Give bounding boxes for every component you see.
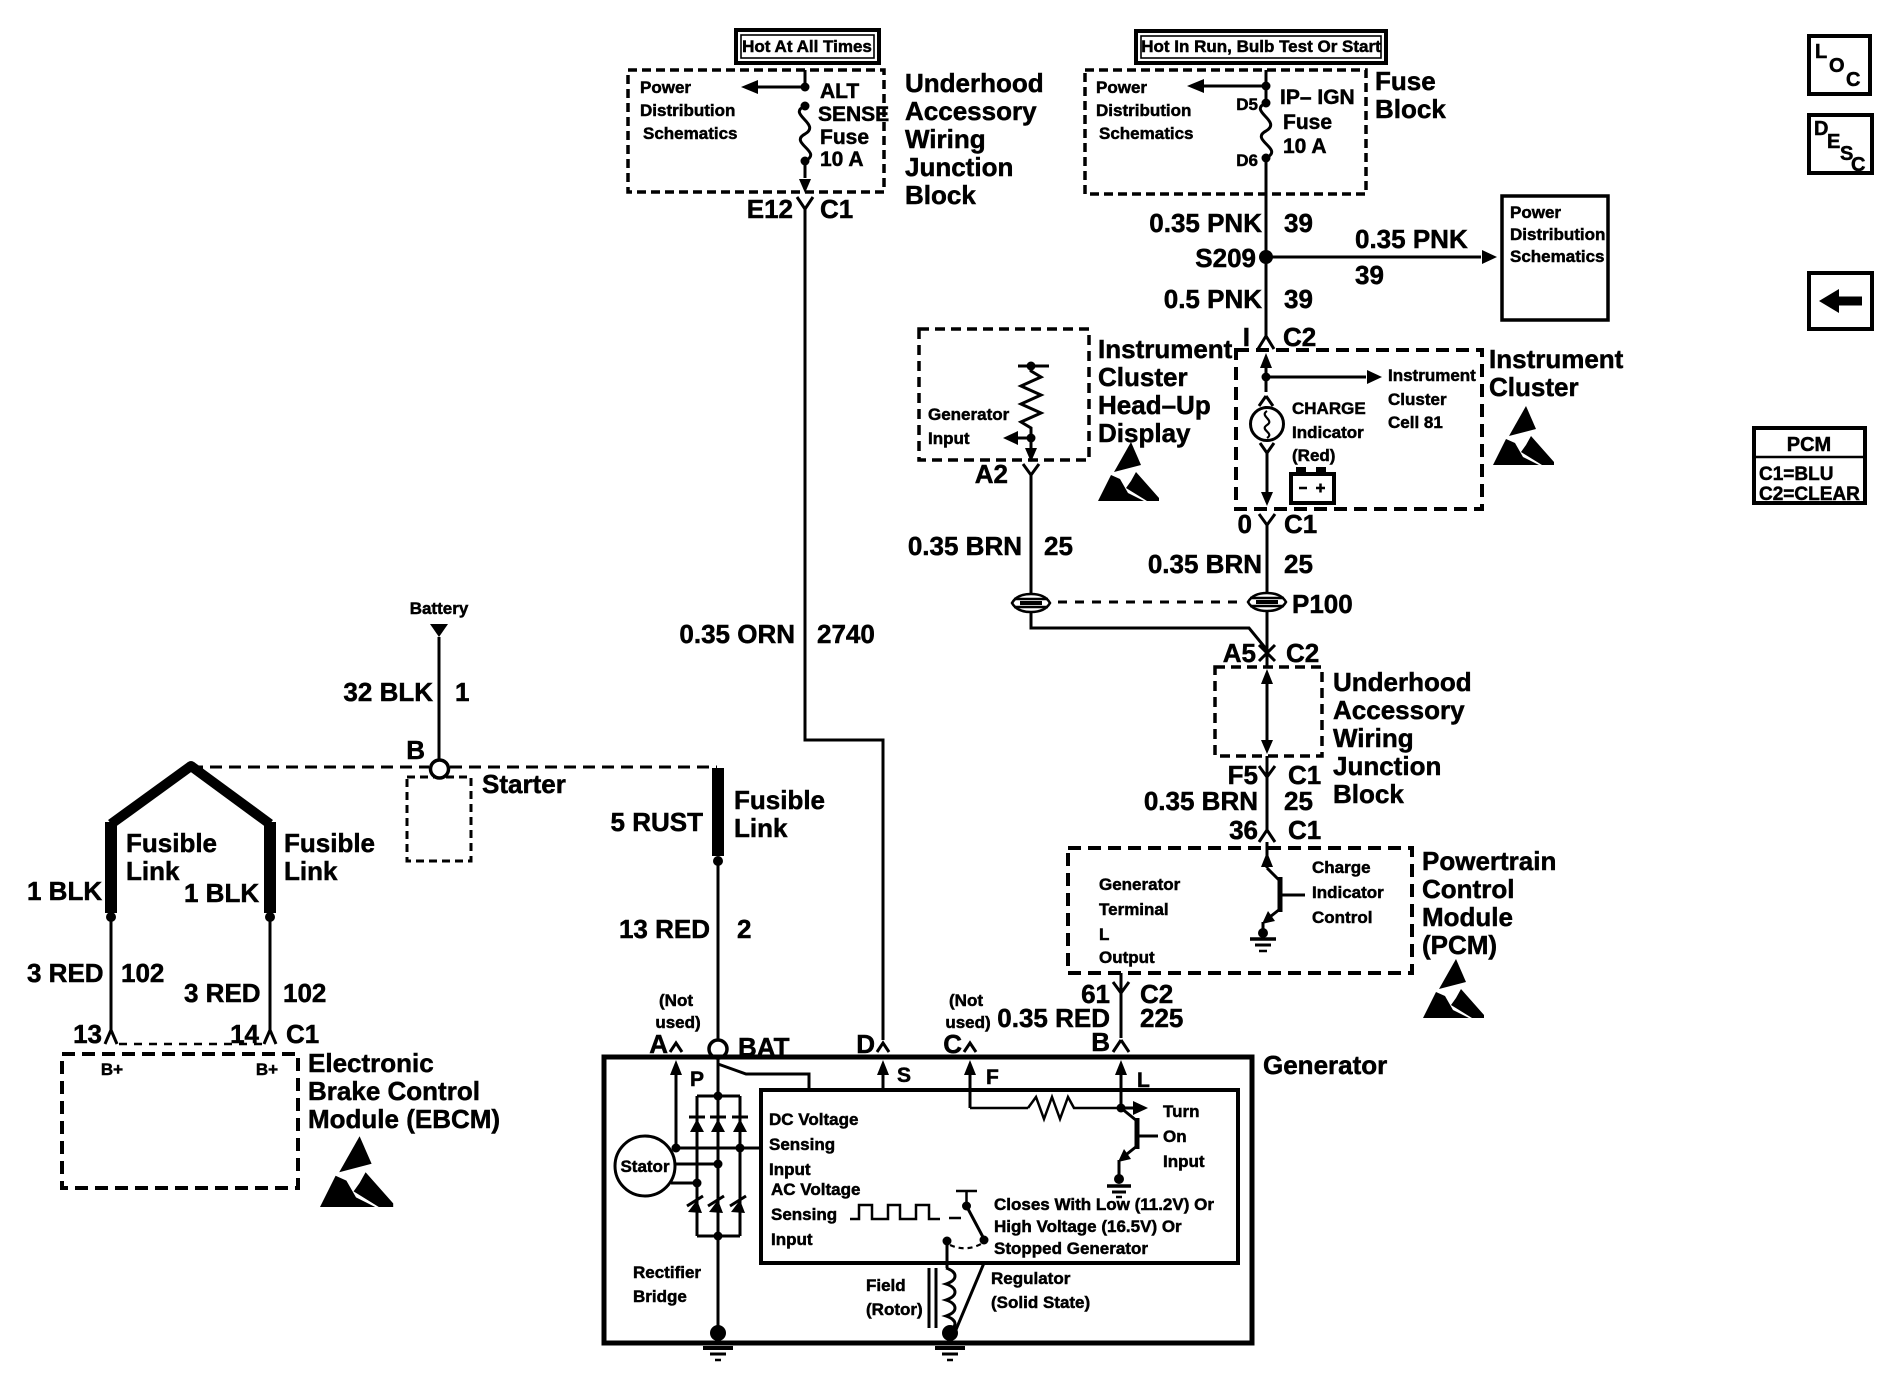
svg-text:36: 36 [1229,815,1258,845]
svg-text:Link: Link [284,856,338,886]
svg-text:Underhood: Underhood [905,68,1044,98]
svg-text:Schematics: Schematics [1510,247,1605,266]
svg-text:C: C [1846,69,1860,91]
svg-text:Distribution: Distribution [1096,101,1191,120]
wire: A2 down to P100 left grommet [1030,488,1033,594]
stator lead 1 (to DC sense) [672,1144,762,1153]
label: Charge Indicator Control [1312,858,1384,927]
label: Instrument Cluster Head-Up Display [1098,334,1233,448]
label: (Not used) at A [655,991,700,1032]
svg-text:Fuse: Fuse [1283,111,1332,134]
dashed actuation link [950,1244,981,1248]
svg-text:B+: B+ [101,1060,123,1079]
battery feed arrowhead [430,624,448,637]
svg-text:S209: S209 [1195,243,1256,273]
svg-text:Instrument: Instrument [1388,366,1476,385]
svg-text:Power: Power [640,78,691,97]
svg-text:39: 39 [1355,260,1384,290]
svg-text:Module: Module [1422,902,1513,932]
label: (Not used) at C [945,991,990,1032]
svg-text:0.35 BRN: 0.35 BRN [908,531,1022,561]
svg-text:I: I [1243,322,1250,352]
connector F5 C1 [1228,760,1322,790]
feed label box: Hot At All Times [736,30,879,63]
svg-text:Brake Control: Brake Control [308,1076,480,1106]
terminal arrow S [877,1060,911,1091]
rectifier bridge top bus [697,1092,740,1101]
wire: cluster input with up arrow [1260,353,1272,376]
wire: PCM output to generator L terminal [1120,973,1123,1038]
svg-text:SENSE: SENSE [818,103,889,126]
svg-text:3 RED: 3 RED [27,958,104,988]
svg-text:CHARGE: CHARGE [1292,399,1366,418]
label: Fusible Link (right) [734,785,825,843]
svg-text:C2=CLEAR: C2=CLEAR [1759,484,1860,505]
DESC reference box [1809,115,1872,176]
wire label: 0.35 BRN 25 (PCM side) [1144,786,1313,816]
svg-text:PCM: PCM [1787,434,1831,456]
svg-text:Display: Display [1098,418,1191,448]
diode top left [689,1117,705,1132]
svg-text:1: 1 [455,677,469,707]
wire: F5 to 36 C1 [1266,756,1269,820]
svg-text:Input: Input [1163,1152,1205,1171]
wire label: 0.35 BRN 25 (A2 side) [908,531,1073,561]
wire: 0.35 ORN 2740 from E12 to generator S [805,222,883,1040]
svg-text:0: 0 [1238,509,1252,539]
connector E12 C1 [747,194,854,224]
connector A5 C2 (X) [1223,638,1320,668]
svg-text:Schematics: Schematics [1099,124,1194,143]
wire: right link to EBCM 14 [269,917,272,1026]
value label: ALT SENSE Fuse 10 A [818,80,889,171]
svg-text:Power: Power [1510,203,1561,222]
svg-text:Underhood: Underhood [1333,667,1472,697]
svg-text:13: 13 [73,1019,102,1049]
svg-text:Powertrain: Powertrain [1422,846,1556,876]
svg-text:(Solid State): (Solid State) [991,1293,1090,1312]
svg-text:Generator: Generator [1263,1050,1387,1080]
wire: fuse output with down arrow [799,161,811,193]
resistor (field control) [970,1097,1148,1119]
label: Field (Rotor) [866,1276,923,1319]
svg-text:E12: E12 [747,194,793,224]
svg-text:Fusible: Fusible [284,828,375,858]
regulator box [761,1090,1238,1263]
svg-text:Output: Output [1099,948,1155,967]
wire label: 0.35 ORN 2740 [679,619,874,649]
svg-text:0.35 BRN: 0.35 BRN [1148,549,1262,579]
svg-text:Sensing: Sensing [771,1205,837,1224]
svg-text:Wiring: Wiring [905,124,986,154]
wire: fuse output down to I C2 [1265,158,1268,324]
svg-text:225: 225 [1140,1003,1183,1033]
feed label box: Hot In Run, Bulb Test Or Start [1136,31,1386,63]
svg-text:Link: Link [126,856,180,886]
dashed wire: node B to fusible links [191,766,717,769]
svg-text:Fusible: Fusible [126,828,217,858]
svg-text:3 RED: 3 RED [184,978,261,1008]
svg-text:P100: P100 [1292,589,1353,619]
label: Turn On Input [1163,1102,1205,1171]
connector 61 C2 [1081,979,1173,1009]
label: CHARGE Indicator (Red) [1292,399,1366,465]
svg-text:10 A: 10 A [1283,135,1327,158]
svg-text:Control: Control [1422,874,1514,904]
terminal C [943,1029,976,1059]
label: DC Voltage Sensing Input [769,1110,858,1179]
square wave signal symbol [850,1205,961,1219]
terminal arrow F [964,1060,999,1108]
esd symbol (instrument cluster) [1493,406,1554,465]
svg-text:10 A: 10 A [820,148,864,171]
svg-text:Indicator: Indicator [1292,423,1364,442]
label: Electronic Brake Control Module (EBCM) [308,1048,500,1134]
wire: left branch grommet down and over to A5 [1031,612,1267,650]
svg-text:P: P [690,1068,704,1091]
wire: resistor to A2 with down arrow [1025,438,1037,462]
label: Power Distribution Schematics (solid box) [1510,203,1605,266]
svg-text:B+: B+ [256,1060,278,1079]
svg-text:F: F [986,1066,999,1089]
svg-text:13 RED: 13 RED [619,914,710,944]
svg-text:0.35 PNK: 0.35 PNK [1149,208,1262,238]
node S209 [1195,243,1273,273]
svg-text:(Not: (Not [659,991,693,1010]
svg-text:39: 39 [1284,208,1313,238]
svg-text:Junction: Junction [1333,751,1441,781]
svg-text:0.35 ORN: 0.35 ORN [679,619,795,649]
terminal BAT (ring) [709,1032,790,1062]
generator input dashed box [919,329,1089,460]
node: splice with arrow left to power distribution [1187,79,1271,93]
connector chevron above lamp [1259,396,1273,408]
wire: BAT sense into regulator [718,1058,809,1090]
pin D6 [1236,151,1270,170]
svg-text:D6: D6 [1236,151,1258,170]
switch contact (fixed) [956,1191,977,1211]
svg-text:Charge: Charge [1312,858,1371,877]
svg-text:B: B [1091,1027,1110,1057]
ground (regulator/field) [935,1325,965,1360]
wire: feed into fuse [804,70,807,87]
svg-text:C1: C1 [820,194,853,224]
terminal arrow P [670,1060,704,1148]
wire: fusible link to BAT [717,861,720,1040]
wire: 36 C1 into PCM with up arrow [1261,842,1273,868]
stator [615,1136,675,1196]
pin D5 [1236,95,1270,114]
label: Regulator (Solid State) [991,1269,1090,1312]
wire label: 13 RED 2 [619,914,752,944]
label: Instrument Cluster (right) [1489,344,1624,402]
LOC reference box [1809,36,1870,94]
grommet P100 right half [1248,593,1286,611]
svg-text:Generator: Generator [1099,875,1181,894]
svg-text:Bridge: Bridge [633,1287,687,1306]
ground (turn on input) [1107,1174,1131,1197]
svg-text:32 BLK: 32 BLK [343,677,433,707]
fusible link (battery feed to generator) [713,768,723,866]
EBCM dashed box [62,1054,298,1188]
underhood junction block dashed box (second) [1215,667,1322,756]
diode bottom middle [708,1196,724,1213]
fuse IP-IGN 10A [1260,103,1271,158]
svg-text:Sensing: Sensing [769,1135,835,1154]
svg-text:Power: Power [1096,78,1147,97]
generator box [604,1057,1252,1343]
starter dashed box [407,777,471,861]
label: Generator Input [928,405,1010,448]
svg-text:C: C [1851,154,1865,176]
battery icon in cluster [1291,467,1334,503]
svg-text:Cluster: Cluster [1098,362,1188,392]
svg-text:Fusible: Fusible [734,785,825,815]
svg-text:On: On [1163,1127,1187,1146]
svg-text:C1: C1 [286,1019,319,1049]
power distribution schematics solid box [1502,196,1608,320]
connector 0 C1 [1238,509,1318,539]
svg-text:(Red): (Red) [1292,446,1335,465]
svg-text:Cluster: Cluster [1489,372,1579,402]
svg-text:0.5 PNK: 0.5 PNK [1164,284,1262,314]
svg-text:Terminal: Terminal [1099,900,1169,919]
svg-text:B: B [406,735,425,765]
wire label: 32 BLK 1 [343,677,469,707]
esd symbol (head-up display) [1098,442,1159,501]
stator lead 2 [675,1160,723,1169]
connector chevron below lamp [1260,443,1274,458]
label: Closes With Low (11.2V) Or High Voltage (16.5V) Or Stopped Generator [994,1195,1214,1258]
svg-text:Input: Input [928,429,970,448]
svg-text:High Voltage (16.5V) Or: High Voltage (16.5V) Or [994,1217,1182,1236]
svg-text:Turn: Turn [1163,1102,1200,1121]
svg-text:2: 2 [737,914,751,944]
node: splice with arrow left (generator input) [1003,431,1036,445]
svg-text:A5: A5 [1223,638,1256,668]
connector B (into generator) [1091,1027,1129,1057]
svg-text:Generator: Generator [928,405,1010,424]
diode bottom left [687,1196,703,1213]
diode top right [732,1117,748,1132]
svg-text:Schematics: Schematics [643,124,738,143]
transistor: charge indicator control driver [1262,868,1305,932]
esd symbol (EBCM) [320,1136,393,1207]
switch common node [943,1237,952,1246]
svg-text:C2: C2 [1283,322,1316,352]
svg-text:E: E [1827,131,1840,153]
fuse ALT SENSE 10A [799,102,810,166]
label: Power Distribution Schematics (left) [640,78,738,143]
ground (rectifier) [703,1325,733,1360]
svg-text:Junction: Junction [905,152,1013,182]
svg-text:Control: Control [1312,908,1372,927]
svg-text:Block: Block [905,180,976,210]
fusible link (left leg) [106,766,191,922]
svg-text:0.35 PNK: 0.35 PNK [1355,224,1468,254]
wire: switch to field coil [946,1241,949,1268]
wire label: 0.35 BRN 25 (cluster side) [1148,549,1313,579]
svg-text:39: 39 [1284,284,1313,314]
svg-text:Electronic: Electronic [308,1048,434,1078]
instrument cluster dashed box [1236,350,1482,509]
fusible link (right leg) [191,766,275,922]
rectifier bridge right rail [739,1096,742,1236]
svg-text:25: 25 [1284,786,1313,816]
svg-text:(Rotor): (Rotor) [866,1300,923,1319]
svg-text:Block: Block [1375,94,1446,124]
svg-text:25: 25 [1284,549,1313,579]
svg-text:Field: Field [866,1276,906,1295]
svg-text:Hot In Run, Bulb Test Or Start: Hot In Run, Bulb Test Or Start [1141,37,1381,56]
terminal arrow L [1115,1060,1150,1108]
svg-text:5 RUST: 5 RUST [611,807,704,837]
connector 14 C1 [230,1019,319,1049]
ground (PCM) [1250,928,1276,951]
svg-text:Input: Input [771,1230,813,1249]
svg-text:Closes With Low (11.2V) Or: Closes With Low (11.2V) Or [994,1195,1214,1214]
svg-text:AC Voltage: AC Voltage [771,1180,860,1199]
svg-text:C1: C1 [1288,815,1321,845]
svg-text:Indicator: Indicator [1312,883,1384,902]
node: splice to cell 81 [1262,373,1271,393]
dashed tie line between 13 and 14 [119,1043,262,1046]
svg-text:C2: C2 [1286,638,1319,668]
svg-text:IP– IGN: IP– IGN [1280,86,1355,109]
svg-text:Block: Block [1333,779,1404,809]
lamp: CHARGE indicator [1251,408,1284,441]
svg-text:L: L [1815,41,1827,63]
svg-text:Fuse: Fuse [1375,66,1436,96]
svg-text:Wiring: Wiring [1333,723,1414,753]
label: Fuse Block [1375,66,1446,124]
svg-text:Cell 81: Cell 81 [1388,413,1443,432]
value label: IP-IGN Fuse 10 A [1280,86,1355,158]
stator lead 3 [671,1179,702,1188]
svg-text:DC Voltage: DC Voltage [769,1110,858,1129]
svg-text:25: 25 [1044,531,1073,561]
transistor: turn on input [1118,1108,1158,1178]
wire: left link to EBCM 13 [110,917,113,1026]
connector 13 [73,1019,117,1049]
connector 36 C1 [1229,815,1321,845]
svg-text:Instrument: Instrument [1489,344,1624,374]
svg-text:S: S [897,1064,911,1087]
svg-text:Head–Up: Head–Up [1098,390,1211,420]
wire: right branch grommet to A5 [1266,611,1269,667]
svg-text:Accessory: Accessory [1333,695,1465,725]
label: Powertrain Control Module (PCM) [1422,846,1556,960]
label: Fusible Link (left) [126,828,217,886]
connector A2 [975,459,1039,489]
svg-text:1 BLK: 1 BLK [27,876,102,906]
label: Underhood Accessory Wiring Junction Block (second) [1333,667,1472,809]
svg-text:0.35 BRN: 0.35 BRN [1144,786,1258,816]
grommet P100 left half [1012,594,1050,612]
svg-text:(PCM): (PCM) [1422,930,1497,960]
svg-text:Instrument: Instrument [1098,334,1233,364]
svg-text:C1: C1 [1284,509,1317,539]
fuse block dashed box (right) [1085,70,1366,194]
terminal A [649,1029,682,1059]
svg-text:Regulator: Regulator [991,1269,1071,1288]
node: splice to power distribution (arrow left) [741,80,810,94]
svg-text:1 BLK: 1 BLK [184,878,259,908]
svg-text:102: 102 [283,978,326,1008]
svg-text:Stator: Stator [620,1157,670,1176]
svg-text:Battery: Battery [410,599,469,618]
wire: arrow to Instrument Cluster Cell 81 [1266,370,1382,384]
esd symbol (PCM) [1423,959,1484,1018]
svg-text:Link: Link [734,813,788,843]
svg-text:O: O [1829,55,1845,77]
svg-text:Accessory: Accessory [905,96,1037,126]
svg-text:ALT: ALT [820,80,859,103]
svg-text:Distribution: Distribution [640,101,735,120]
dashed pass-through line between grommets [1058,601,1242,604]
node: fusible link peak [186,761,196,771]
wire label: 0.5 PNK 39 [1164,284,1313,314]
svg-text:Hot At All Times: Hot At All Times [742,37,872,56]
svg-text:Distribution: Distribution [1510,225,1605,244]
rectifier bridge left rail [696,1096,699,1236]
svg-text:Input: Input [769,1160,811,1179]
field coil (rotor) [929,1268,955,1331]
label: Instrument Cluster Cell 81 [1388,366,1476,432]
wire: battery to node B [438,637,441,760]
wire label: 0.35 RED 225 [997,1003,1183,1033]
svg-text:Stopped Generator: Stopped Generator [994,1239,1148,1258]
wire: regulator to ground diagonal [955,1263,984,1332]
svg-text:A2: A2 [975,459,1008,489]
label: Rectifier Bridge [633,1263,701,1306]
wire: S209 branch right with arrow [1266,250,1497,264]
svg-text:Rectifier: Rectifier [633,1263,701,1282]
label: AC Voltage Sensing Input [771,1180,860,1249]
label: Underhood Accessory Wiring Junction Block (left) [905,68,1044,210]
PCM dashed box [1068,848,1412,973]
diode bottom right [730,1196,746,1213]
PCM connector legend box [1754,428,1865,505]
terminal D [856,1029,889,1059]
wire label: 0.35 PNK 39 (branch) [1355,224,1468,290]
wire label: 0.35 PNK 39 (upper) [1149,208,1313,238]
label: Power Distribution Schematics (right) [1096,78,1194,143]
label: Fusible Link (middle) [284,828,375,886]
svg-text:Fuse: Fuse [820,126,869,149]
underhood junction block dashed box (left) [628,70,884,192]
wire label: 3 RED 102 (right) [184,978,326,1008]
wire: through junction block with up and down arrows [1261,669,1273,754]
svg-text:Starter: Starter [482,769,566,799]
svg-text:2740: 2740 [817,619,875,649]
svg-text:102: 102 [121,958,164,988]
svg-text:Cluster: Cluster [1388,390,1447,409]
svg-text:(Not: (Not [949,991,983,1010]
resistor (generator input) [1018,362,1049,439]
back arrow box [1809,273,1872,329]
svg-text:C1=BLU: C1=BLU [1759,464,1833,485]
svg-text:D5: D5 [1236,95,1258,114]
wire label: 3 RED 102 (left) [27,958,164,988]
node B (ring) [406,735,448,778]
wire: feed into IP-IGN fuse [1265,70,1268,103]
svg-text:Module (EBCM): Module (EBCM) [308,1104,500,1134]
wire: BAT main vertical through rectifier [717,1058,720,1332]
rectifier bridge bottom bus [697,1232,740,1241]
diode top middle [710,1117,726,1132]
connector I C2 [1243,322,1316,352]
